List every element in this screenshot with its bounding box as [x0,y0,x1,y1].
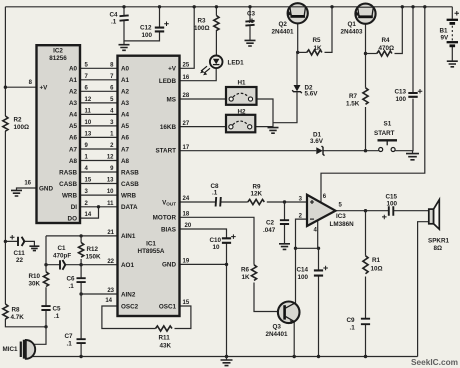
polarity + of C14 [323,266,328,271]
capacitor C12 (polarized) [155,28,164,32]
value label C9 [347,317,356,332]
label IC1 name [138,240,165,255]
svg-text:R9: R9 [253,184,262,191]
ground: H1/H2/D2 ground [268,128,279,134]
wire: AO1 pin 22 line with C1 [46,264,118,266]
wire: DI to DATA [80,206,118,208]
node: C11 tap on left rail [4,240,7,243]
svg-text:Q2: Q2 [279,21,288,28]
watermark SeekIC.com [411,357,458,367]
pin numbers IC1 right side [183,63,192,307]
wire: IC2 +V pin 8 [5,86,36,88]
wire: C3 branch [249,7,251,40]
wire: A4 bus [80,113,118,115]
wire: R4 right to rail riser [395,7,403,54]
svg-text:C11: C11 [14,250,26,257]
wire: CASB bus [80,183,118,185]
node: pin4/C14 junction [317,247,320,250]
value label C1 [53,245,71,260]
node: main ground tap on bottom rail [225,355,228,358]
polarity + of C11 [10,235,15,240]
value label Q3 [266,324,289,339]
svg-text:A0: A0 [121,66,130,73]
svg-text:16KB: 16KB [160,124,177,131]
wire: R4 left stub [366,53,377,55]
wire: C14 branch to bottom rail [318,248,320,356]
svg-text:100Ω: 100Ω [194,25,210,32]
wire: RASB bus [80,171,118,173]
svg-text:RASB: RASB [121,169,139,176]
value label C6 [67,276,76,291]
value label R8 [11,307,25,322]
wire: GND pin 19 to main ground [180,264,227,356]
wire: op-amp pin 4 drop [317,221,319,249]
svg-text:28: 28 [183,93,190,99]
svg-text:C4: C4 [110,12,119,19]
op-amp pin number 5 [339,203,343,209]
wire: connector pin2 node to pin4/C14 node [296,247,319,249]
svg-text:A8: A8 [69,158,78,165]
svg-text:20: 20 [185,223,192,229]
wire: D2 branch from Q2 node to ground bus [273,52,297,122]
wire: VOUT pin 24 through C8 and R9 to op-amp pin 3 [180,201,308,203]
svg-text:SPKR1: SPKR1 [428,238,449,245]
svg-text:LED1: LED1 [228,59,245,66]
value label LED1 [228,59,245,66]
pin numbers IC1 side of bus [107,62,114,207]
value label H1 [238,80,247,87]
svg-text:+V: +V [40,85,49,92]
svg-text:GND: GND [162,262,176,269]
svg-text:10: 10 [85,120,92,126]
svg-text:100: 100 [142,32,153,39]
value label B1 [440,28,450,42]
svg-text:A7: A7 [121,146,130,153]
jumper header H1 [226,87,257,105]
svg-text:R5: R5 [313,37,322,44]
capacitor C5 [41,306,50,310]
wire: C12 top stub [159,7,161,27]
svg-text:150K: 150K [86,254,102,261]
wire: WRB bus [80,194,118,196]
svg-text:24: 24 [183,196,190,202]
svg-text:.1: .1 [111,19,117,26]
wire: A1 bus [80,79,118,81]
op-amp pin number 3 [299,197,303,203]
value label C2 [263,220,276,234]
op-amp pin number 6 [323,194,327,200]
transistor Q3 (2N4401) [278,302,300,325]
svg-text:2N4403: 2N4403 [341,29,364,36]
svg-text:C5: C5 [53,306,62,313]
svg-text:21: 21 [107,230,114,236]
svg-text:HT8955A: HT8955A [138,248,165,255]
capacitor C8 [216,197,221,207]
svg-text:10Ω: 10Ω [371,266,383,273]
svg-text:H1: H1 [238,80,247,87]
svg-text:A5: A5 [121,123,130,130]
svg-text:LEDB: LEDB [159,78,177,85]
svg-text:R8: R8 [12,307,21,314]
wire: H1 right to ground bus [257,99,274,128]
svg-text:R2: R2 [14,117,23,124]
svg-text:MIC1: MIC1 [3,346,19,353]
value label C3 [247,11,256,26]
svg-text:A8: A8 [121,158,130,165]
node: C4 on rail [122,5,125,8]
svg-text:A0: A0 [69,66,78,73]
svg-text:4.7K: 4.7K [11,314,25,321]
wire: Q2 base lead down to R5 node [297,17,299,52]
value label R5 [313,37,323,52]
node: Q1 base / R4 junction [364,52,367,55]
svg-text:R4: R4 [382,37,391,44]
svg-text:+V: +V [168,66,177,73]
microphone MIC1 [21,340,35,359]
ground: below C2 [279,244,290,250]
svg-text:R3: R3 [198,18,207,25]
svg-text:AIN1: AIN1 [121,233,136,240]
svg-text:100: 100 [396,96,407,103]
svg-text:A1: A1 [121,77,130,84]
capacitor C9 [361,319,370,325]
battery B1 [447,20,458,46]
ground: below C3 [245,40,256,46]
svg-text:10: 10 [107,189,114,195]
svg-text:13: 13 [107,178,114,184]
capacitor C2 [280,220,289,224]
polarity + of C15 [382,215,387,220]
wire: A5 bus [80,125,118,127]
svg-text:R10: R10 [29,273,41,280]
value label R7 [346,93,360,108]
label IC1 left pins [121,66,139,311]
zener diode D2 [292,85,302,93]
svg-text:.1: .1 [249,18,255,25]
value label R10 [29,273,41,288]
value label Q1 [341,21,364,36]
resistor R5 [307,50,322,55]
resistor R7 [363,88,368,104]
wire: R5 right to rail riser [325,7,333,53]
op-amp pin number 4 [314,228,318,234]
svg-text:A4: A4 [121,112,130,119]
wire: OSC1 pin 15 loop [175,306,191,329]
node: C1 left junction [44,263,47,266]
svg-text:1K: 1K [242,274,251,281]
node: DO/DI junction [97,205,100,208]
svg-text:SeekIC.com: SeekIC.com [411,357,458,367]
value label R11 [159,335,172,350]
wire: BIAS pin 20 through C10 [180,229,227,264]
wire: OSC2 pin 14 loop through R11 [102,306,156,329]
svg-text:C10: C10 [210,237,222,244]
resistor R2 [3,116,8,131]
wire: left analog chain (AIN1 down through R10, C5) [45,236,47,327]
node: Q3 emitter on bottom rail [293,355,296,358]
svg-text:15: 15 [183,300,190,306]
svg-text:11: 11 [107,201,114,207]
svg-text:RASB: RASB [59,169,77,176]
svg-text:START: START [374,130,395,137]
wire: op-amp pin 6 riser to top rail [321,7,425,203]
wire: C6 stubs [80,265,82,294]
svg-text:Q3: Q3 [273,324,282,331]
svg-text:MS: MS [167,96,176,103]
resistor R1 [363,256,368,274]
wire: op-amp pin 2 to feedback node [296,219,308,248]
wire: C13 riser from rail [412,7,415,151]
svg-text:17: 17 [183,145,190,151]
svg-text:3.6V: 3.6V [310,138,324,145]
wire: +V top supply rail [5,6,452,8]
capacitor C6 [77,278,86,282]
svg-text:30K: 30K [29,281,41,288]
value label C12 [140,25,153,40]
wire: C7 branch to bottom rail [80,294,82,357]
svg-text:.1: .1 [350,325,356,332]
svg-text:12: 12 [85,97,92,103]
LED LED1 [210,56,223,69]
svg-text:Q1: Q1 [348,21,357,28]
polarity + of C10 [231,234,236,239]
svg-text:22: 22 [16,257,24,264]
svg-text:MOTOR: MOTOR [153,215,177,222]
svg-text:DI: DI [71,204,78,211]
wire: A8 bus [80,160,118,162]
svg-text:C15: C15 [386,194,398,201]
value label H2 [238,109,247,116]
svg-text:A1: A1 [69,77,78,84]
svg-text:R11: R11 [159,335,171,342]
value label C8 [211,183,220,197]
svg-text:470Ω: 470Ω [379,45,395,52]
wire: Q1 base lead down through R4 node to R7 [365,17,367,151]
label IC2 +V pin [40,85,49,92]
wire: START pin 17 line [180,150,413,152]
svg-text:1K: 1K [314,45,323,52]
svg-text:WRB: WRB [121,192,136,199]
value label Q2 [272,21,295,36]
node: C9 on bottom rail [364,355,367,358]
svg-text:C9: C9 [347,317,356,324]
value label C11 [14,250,26,264]
node: C3 on rail [248,5,251,8]
wire: AIN2 pin 23 line [81,293,117,295]
svg-text:2N4401: 2N4401 [266,331,289,338]
node: pin2 feedback junction [294,247,297,250]
node: pin6 riser on rail [423,5,426,8]
IC U2 (IC2 81256 DRAM) body [37,45,81,223]
value label R6 [241,267,250,282]
svg-text:C6: C6 [67,276,76,283]
pin number 8 (IC2 +V) [29,80,33,86]
value label C15 [386,194,398,208]
node: C12 on rail [158,5,161,8]
svg-text:IC2: IC2 [53,48,63,55]
svg-text:LM386N: LM386N [330,221,355,228]
svg-text:10: 10 [213,244,221,251]
wire: A6 bus [80,136,118,138]
capacitor C14 (polarized) [314,270,323,275]
wire: junction down to microphone [34,327,47,345]
svg-text:B1: B1 [440,28,449,35]
ground: IC2 pin 16 [11,190,22,196]
value label C4 [110,12,119,26]
switch S1 (START pushbutton) [378,140,398,151]
svg-text:BIAS: BIAS [161,226,176,233]
wire: C2 drop [284,202,286,243]
pin numbers IC1 lower left side [105,230,114,304]
node: C7 on bottom rail [79,355,82,358]
wire: R5 left stub [298,51,307,53]
value label R9 [251,184,263,198]
svg-text:AIN2: AIN2 [121,291,136,298]
svg-text:H2: H2 [238,109,247,116]
op-amp IC3 LM386N [307,195,336,226]
value label R12 [86,246,102,261]
wire: op-amp pin 5 output through C15 to speaker [335,210,429,212]
capacitor C1 [60,260,65,270]
svg-text:27: 27 [183,121,190,127]
svg-text:12K: 12K [251,191,263,198]
svg-text:43K: 43K [160,343,172,350]
ground: below C4 [119,41,130,50]
value label R4 [379,37,395,52]
resistor R10 [43,272,48,287]
wire: A0 bus [80,67,118,69]
svg-text:81256: 81256 [49,55,67,62]
label IC2 A0..DO pins [59,66,77,223]
ground: main bottom ground [221,357,233,366]
svg-text:R1: R1 [372,257,381,264]
pin number 16 (IC2 GND) [24,181,31,187]
svg-text:CASB: CASB [59,181,77,188]
svg-text:.1: .1 [69,283,75,290]
svg-text:DO: DO [68,215,78,222]
svg-text:14: 14 [105,298,112,304]
svg-text:S1: S1 [384,121,392,128]
wire: bottom ground rail [30,356,418,358]
node: R3 on top rail [215,5,218,8]
svg-text:16: 16 [24,181,31,187]
capacitor C10 (polarized) [222,238,231,243]
capacitor C15 (polarized) [389,206,394,216]
svg-text:GND: GND [39,186,53,193]
value label D1 [310,132,324,146]
svg-text:R6: R6 [241,267,250,274]
svg-text:.047: .047 [263,227,276,234]
svg-text:A7: A7 [69,146,78,153]
wire: IC2 GND pin 16 [17,188,37,190]
svg-text:15: 15 [85,178,92,184]
resistor R11 [156,326,172,331]
svg-text:2N4401: 2N4401 [272,29,295,36]
value label C5 [53,306,62,321]
node: C13 riser on rail [411,5,414,8]
wire: A7 bus [80,148,118,150]
svg-text:R12: R12 [87,246,99,253]
svg-text:16: 16 [183,75,190,81]
wire: C4 branch [124,7,160,41]
wire: R12 stubs [80,236,82,265]
capacitor C13 (polarized) [408,93,417,97]
wire: 16KB pin 27 to H2 [180,126,227,128]
svg-text:CASB: CASB [121,181,139,188]
svg-text:5.6V: 5.6V [305,91,319,98]
svg-text:100: 100 [387,201,398,208]
svg-text:C12: C12 [140,25,152,32]
value label C7 [65,333,74,348]
svg-text:12: 12 [107,155,114,161]
svg-text:.1: .1 [67,341,73,348]
wire: A3 bus [80,102,118,104]
svg-text:C13: C13 [395,89,407,96]
svg-text:C1: C1 [58,245,67,252]
wire: LEDB pin 16 to LED1 cathode [180,68,217,81]
svg-text:1.5K: 1.5K [346,101,360,108]
node: +V riser on top rail [193,5,196,8]
node: R12/C6 junction on AO1 line [79,263,82,266]
transistor Q2 (2N4401) [288,3,308,23]
capacitor C4 [120,15,129,20]
svg-text:A5: A5 [69,123,78,130]
node: R4 riser on rail [401,5,404,8]
svg-text:OSC1: OSC1 [159,303,177,310]
svg-text:DATA: DATA [121,204,138,211]
resistor R4 [377,51,392,56]
svg-text:11: 11 [85,108,92,114]
svg-text:.1: .1 [54,313,60,320]
wire: speaker return [418,222,429,357]
label IC2 name [49,48,67,63]
wire: MOTOR pin 18 to R6 to Q3 base [180,217,279,311]
svg-text:IC3: IC3 [336,213,346,220]
svg-text:25: 25 [183,63,190,69]
wire: DO loop to DATA line [80,207,99,218]
wire: Q3 emitter/collector leads [293,322,295,357]
ground: right of C11 [29,246,39,250]
capacitor C7 [77,339,86,343]
svg-text:100: 100 [298,274,309,281]
node: IC2 +V tap on left rail [4,86,7,89]
wire: R1/C9 branch to bottom rail [365,211,367,357]
node: C5/R8 junction [44,325,47,328]
svg-text:A3: A3 [69,100,78,107]
svg-text:9V: 9V [441,35,450,42]
resistor R6 [251,265,256,281]
svg-text:AO1: AO1 [121,262,134,269]
node: R5 riser on rail [330,5,333,8]
value label S1 [374,121,395,138]
svg-text:C14: C14 [297,267,309,274]
pin numbers IC2 side of bus [85,62,92,218]
wire: A2 bus [80,90,118,92]
ground: battery B1 [447,61,458,67]
node: Q2 base / R5 junction [296,51,299,54]
svg-text:A3: A3 [121,100,130,107]
value label SPKR1 [428,238,449,253]
value label C13 [395,89,407,104]
svg-text:A2: A2 [121,89,130,96]
svg-text:C2: C2 [266,220,275,227]
wire: R3 top to rail / R3 bottom to LED1 [215,7,217,56]
wire: left supply rail (to R2, C11, R8) [5,7,46,327]
speaker SPKR1 [429,200,440,230]
wire: AIN1 pin 21 line [46,235,118,237]
value label R1 [371,257,383,273]
op-amp pin number 2 [299,214,303,220]
